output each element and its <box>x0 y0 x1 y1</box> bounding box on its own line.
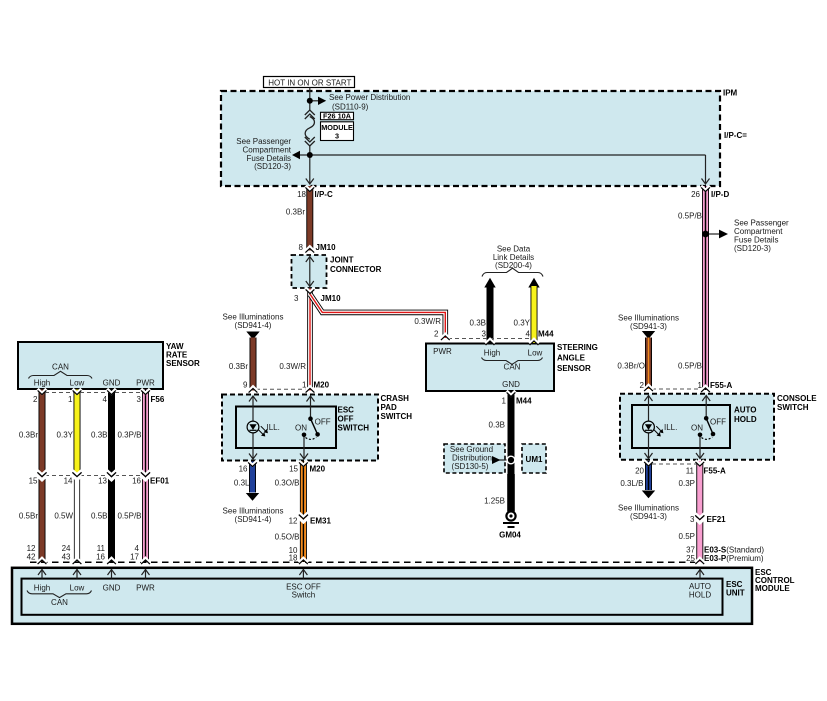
svg-text:18: 18 <box>297 190 306 199</box>
svg-text:ANGLE: ANGLE <box>557 353 586 362</box>
svg-text:I/P-C: I/P-C <box>315 190 333 199</box>
svg-text:0.3Y: 0.3Y <box>57 431 74 440</box>
svg-text:Switch: Switch <box>292 591 316 600</box>
svg-text:EF21: EF21 <box>707 515 727 524</box>
svg-text:SWITCH: SWITCH <box>777 403 809 412</box>
svg-text:17: 17 <box>130 553 139 562</box>
svg-text:(SD200-4): (SD200-4) <box>495 261 532 270</box>
svg-text:0.5P/B: 0.5P/B <box>678 212 702 221</box>
svg-text:IPM: IPM <box>723 88 738 97</box>
svg-text:3: 3 <box>690 515 695 524</box>
svg-text:JM10: JM10 <box>321 294 342 303</box>
svg-text:11: 11 <box>686 467 695 476</box>
svg-text:0.3B: 0.3B <box>91 431 107 440</box>
svg-text:0.3Y: 0.3Y <box>514 319 531 328</box>
svg-text:(SD941-3): (SD941-3) <box>630 322 667 331</box>
svg-text:GND: GND <box>103 583 121 592</box>
svg-text:4: 4 <box>103 395 108 404</box>
svg-text:(SD120-3): (SD120-3) <box>734 244 771 253</box>
svg-text:CRASH: CRASH <box>381 394 410 403</box>
svg-text:0.5P/B: 0.5P/B <box>117 512 141 521</box>
svg-text:1: 1 <box>302 381 307 390</box>
svg-text:43: 43 <box>62 553 71 562</box>
svg-text:HOLD: HOLD <box>734 415 757 424</box>
svg-text:F26 10A: F26 10A <box>323 112 352 121</box>
svg-text:(SD941-4): (SD941-4) <box>235 321 272 330</box>
svg-text:See Power Distribution: See Power Distribution <box>329 93 410 102</box>
svg-text:0.3P: 0.3P <box>679 479 695 488</box>
svg-text:13: 13 <box>98 477 107 486</box>
svg-text:M20: M20 <box>314 381 330 390</box>
svg-text:0.3O/B: 0.3O/B <box>275 479 300 488</box>
svg-text:GND: GND <box>103 379 121 388</box>
svg-text:GM04: GM04 <box>499 531 521 540</box>
svg-text:(SD130-5): (SD130-5) <box>452 462 489 471</box>
svg-text:M44: M44 <box>538 329 554 338</box>
svg-text:PWR: PWR <box>136 583 155 592</box>
svg-text:CAN: CAN <box>51 598 68 607</box>
svg-text:UNIT: UNIT <box>726 589 745 598</box>
svg-text:9: 9 <box>243 381 248 390</box>
svg-text:HOT IN ON OR START: HOT IN ON OR START <box>268 78 351 87</box>
svg-text:2: 2 <box>640 381 645 390</box>
svg-text:I/P-C=: I/P-C= <box>724 131 747 140</box>
svg-text:M20: M20 <box>310 465 326 474</box>
svg-text:15: 15 <box>289 465 298 474</box>
svg-text:E03-P(Premium): E03-P(Premium) <box>704 554 764 563</box>
svg-text:1: 1 <box>68 395 73 404</box>
svg-text:(SD120-3): (SD120-3) <box>254 162 291 171</box>
svg-text:F55-A: F55-A <box>710 381 732 390</box>
svg-text:CONSOLE: CONSOLE <box>777 394 817 403</box>
svg-text:OFF: OFF <box>315 418 331 427</box>
svg-text:CONNECTOR: CONNECTOR <box>330 265 382 274</box>
svg-text:0.5Br: 0.5Br <box>19 512 38 521</box>
svg-text:SWITCH: SWITCH <box>338 423 370 432</box>
svg-text:8: 8 <box>299 243 304 252</box>
svg-text:F55-A: F55-A <box>704 467 726 476</box>
svg-text:0.3Br/O: 0.3Br/O <box>617 362 645 371</box>
svg-text:JOINT: JOINT <box>330 255 354 264</box>
svg-text:3: 3 <box>294 294 299 303</box>
svg-text:18: 18 <box>289 554 298 563</box>
svg-text:High: High <box>34 583 50 592</box>
svg-text:0.5P/B: 0.5P/B <box>678 362 702 371</box>
svg-text:0.3B: 0.3B <box>470 319 486 328</box>
svg-text:0.5B: 0.5B <box>91 512 107 521</box>
svg-text:SWITCH: SWITCH <box>381 412 413 421</box>
svg-text:1.25B: 1.25B <box>484 497 505 506</box>
svg-text:ON: ON <box>295 423 307 432</box>
svg-text:ILL.: ILL. <box>664 423 677 432</box>
svg-text:High: High <box>484 349 500 358</box>
svg-text:Low: Low <box>70 583 85 592</box>
svg-text:MODULE: MODULE <box>755 584 790 593</box>
svg-text:3: 3 <box>137 395 142 404</box>
svg-text:STEERING: STEERING <box>557 343 598 352</box>
svg-text:0.3W/R: 0.3W/R <box>279 362 306 371</box>
svg-text:0.5O/B: 0.5O/B <box>275 533 300 542</box>
svg-text:0.3L: 0.3L <box>234 479 250 488</box>
svg-text:0.3Br: 0.3Br <box>229 362 248 371</box>
svg-text:CAN: CAN <box>504 362 521 371</box>
svg-text:AUTO: AUTO <box>734 405 757 414</box>
svg-text:0.3L/B: 0.3L/B <box>620 479 643 488</box>
svg-text:HOLD: HOLD <box>689 591 711 600</box>
svg-text:14: 14 <box>64 477 73 486</box>
svg-text:16: 16 <box>132 477 141 486</box>
svg-text:F56: F56 <box>151 395 165 404</box>
svg-text:4: 4 <box>526 329 531 338</box>
svg-text:12: 12 <box>289 517 298 526</box>
svg-text:EM31: EM31 <box>310 517 331 526</box>
svg-text:CAN: CAN <box>52 363 69 372</box>
svg-text:26: 26 <box>691 190 700 199</box>
svg-text:42: 42 <box>27 553 36 562</box>
svg-text:Low: Low <box>528 349 543 358</box>
svg-text:2: 2 <box>33 395 38 404</box>
svg-text:OFF: OFF <box>338 414 354 423</box>
svg-text:25: 25 <box>686 554 695 563</box>
svg-text:M44: M44 <box>516 396 532 405</box>
svg-text:20: 20 <box>635 467 644 476</box>
svg-text:EF01: EF01 <box>150 477 170 486</box>
svg-text:ILL.: ILL. <box>267 423 280 432</box>
svg-text:PAD: PAD <box>381 403 398 412</box>
svg-text:SENSOR: SENSOR <box>557 364 591 373</box>
svg-text:1: 1 <box>502 396 507 405</box>
svg-text:ON: ON <box>691 423 703 432</box>
svg-text:3: 3 <box>482 329 487 338</box>
svg-text:High: High <box>34 379 50 388</box>
svg-text:0.5P: 0.5P <box>679 532 695 541</box>
svg-text:15: 15 <box>29 477 38 486</box>
svg-text:16: 16 <box>96 553 105 562</box>
svg-text:I/P-D: I/P-D <box>711 190 729 199</box>
svg-text:0.3B: 0.3B <box>489 420 505 429</box>
svg-text:OFF: OFF <box>710 418 726 427</box>
svg-text:GND: GND <box>502 380 520 389</box>
svg-text:3: 3 <box>335 132 339 141</box>
svg-text:0.3Br: 0.3Br <box>19 431 38 440</box>
svg-text:2: 2 <box>434 329 439 338</box>
svg-text:PWR: PWR <box>136 379 155 388</box>
svg-text:0.3W/R: 0.3W/R <box>414 317 441 326</box>
svg-text:(SD941-4): (SD941-4) <box>235 515 272 524</box>
svg-text:1: 1 <box>698 381 703 390</box>
svg-text:UM1: UM1 <box>526 455 543 464</box>
svg-text:0.3Br: 0.3Br <box>286 208 305 217</box>
svg-text:0.3P/B: 0.3P/B <box>117 431 141 440</box>
svg-text:0.5W: 0.5W <box>54 512 73 521</box>
svg-text:ESC: ESC <box>338 405 355 414</box>
svg-text:JM10: JM10 <box>316 243 337 252</box>
svg-text:PWR: PWR <box>433 347 452 356</box>
svg-text:Low: Low <box>70 379 85 388</box>
svg-text:(SD110-9): (SD110-9) <box>332 103 369 112</box>
svg-text:16: 16 <box>239 465 248 474</box>
svg-text:(SD941-3): (SD941-3) <box>630 512 667 521</box>
svg-text:SENSOR: SENSOR <box>166 359 200 368</box>
